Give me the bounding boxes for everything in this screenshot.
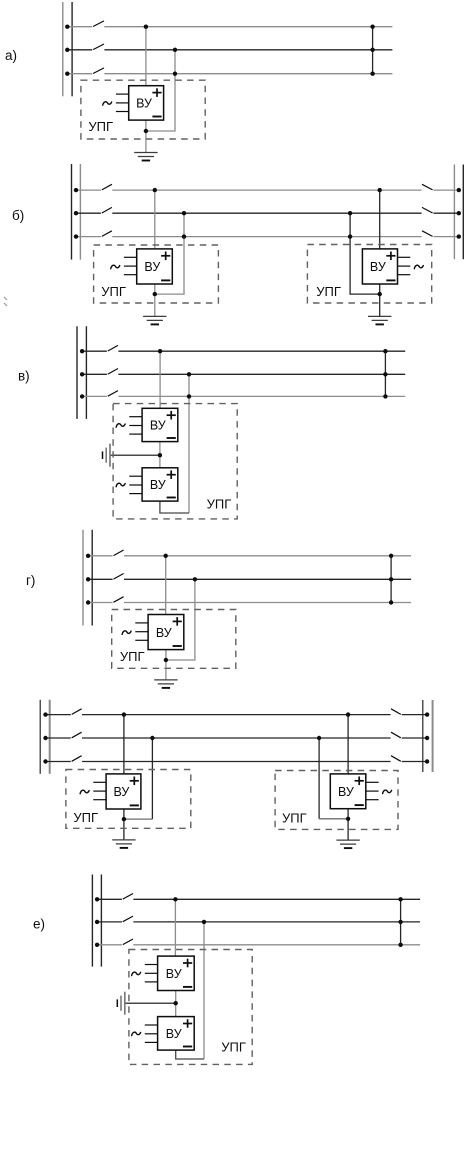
- wire right minus output jog section д: [319, 818, 348, 820]
- left disconnect switch QS1 section д: [72, 709, 82, 715]
- disconnect switch QS3 section в: [108, 391, 118, 397]
- right disconnect switch QS4 section д: [391, 709, 401, 715]
- node right tie phase A section в: [383, 349, 387, 353]
- wire phase A to left ВУ input section б: [154, 190, 156, 249]
- stray page artifact marks: [4, 297, 7, 306]
- node right minus junction section д: [346, 817, 350, 821]
- svg-text:ВУ: ВУ: [150, 478, 166, 492]
- right busbar system section д: [423, 700, 433, 772]
- node right tie phase A section е: [398, 897, 402, 901]
- left disconnect switch QS2 section б: [102, 207, 112, 213]
- svg-text:б): б): [12, 208, 24, 223]
- wire ВУ minus to ground section г: [165, 650, 167, 680]
- left disconnect switch QS2 section д: [72, 732, 82, 738]
- left busbar system section д: [40, 700, 50, 774]
- busbar system section а: [63, 2, 72, 96]
- disconnect switch QS3 section а: [93, 68, 104, 74]
- wire left minus output jog section д: [124, 818, 152, 820]
- wire phase B down-link left section д: [151, 738, 153, 819]
- left disconnect switch QS3 section д: [72, 756, 82, 762]
- rectifier ВУ section г: [122, 615, 184, 650]
- svg-text:ВУ: ВУ: [166, 967, 182, 981]
- node right tie phase B section а: [370, 48, 374, 52]
- wire left ВУ minus to ground section б: [154, 284, 156, 316]
- wire midpoint to ground section е: [125, 1002, 176, 1004]
- right disconnect switch QS5 section б: [422, 207, 433, 213]
- svg-text:г): г): [26, 573, 35, 588]
- node phase A left tap section б: [153, 188, 157, 192]
- left rectifier ВУ section б: [111, 249, 173, 284]
- svg-text:УПГ: УПГ: [73, 810, 98, 825]
- left busbar system section б: [72, 164, 81, 260]
- disconnect switch QS1 section е: [123, 894, 133, 900]
- wire phase A to right ВУ input section б: [379, 190, 381, 249]
- wire phase A to ВУ input section г: [165, 556, 167, 615]
- wire right tie link section е: [400, 899, 402, 945]
- node phase B left tap section б: [182, 211, 186, 215]
- node right tie phase C section г: [389, 600, 393, 604]
- left rectifier ВУ section д: [80, 774, 141, 809]
- busbar system section г: [83, 530, 92, 626]
- wire right tie link section г: [390, 556, 392, 603]
- node right minus junction section б: [378, 292, 382, 296]
- disconnect switch QS2 section в: [108, 369, 118, 375]
- node right tie phase B section е: [398, 920, 402, 924]
- right disconnect switch QS4 section б: [422, 184, 433, 190]
- wire phases B,C down-link section в: [188, 374, 190, 513]
- node right tie phase C section в: [383, 394, 387, 398]
- УПГ enclosure section е: [129, 950, 252, 1065]
- wire right ВУ minus to ground section б: [379, 284, 381, 316]
- rectifier ВУ section а: [103, 86, 164, 120]
- wire phase A to right ВУ input section д: [347, 715, 349, 774]
- wire phase A to ВУ1 input section в: [159, 351, 161, 408]
- node right tie phase A section г: [389, 554, 393, 558]
- ground section г: [154, 680, 177, 688]
- wire phase A to ВУ input section а: [145, 27, 147, 86]
- wire phase A section д: [43, 712, 429, 716]
- wire midpoint to ground section в: [110, 454, 160, 456]
- wire phase B to minus output section г: [166, 579, 195, 660]
- left disconnect switch QS1 section б: [102, 184, 112, 190]
- svg-text:ВУ: ВУ: [113, 785, 129, 799]
- wire phases B,C to right minus output section б: [350, 213, 380, 294]
- right УПГ enclosure section б: [307, 245, 431, 304]
- right УПГ enclosure section д: [275, 771, 398, 830]
- node right tie phase A section а: [370, 25, 374, 29]
- disconnect switch QS1 section г: [114, 550, 124, 556]
- disconnect switch QS1 section а: [93, 21, 104, 27]
- svg-text:УПГ: УПГ: [221, 1040, 246, 1055]
- svg-text:УПГ: УПГ: [316, 284, 341, 299]
- wire phase A to ВУ1 input section е: [174, 899, 176, 956]
- disconnect switch QS3 section г: [114, 597, 124, 603]
- wire phases B,C to minus output section а: [146, 50, 175, 131]
- node right tie phase C section а: [370, 72, 374, 76]
- right ground section б: [368, 316, 391, 324]
- node phase A left tap section д: [122, 712, 126, 716]
- wire ВУ1 minus to ВУ2 plus section в: [159, 442, 161, 468]
- node phase B tap section г: [193, 577, 197, 581]
- node phase B right tap section д: [317, 736, 321, 740]
- node phase A right tap section д: [346, 712, 350, 716]
- right busbar system section б: [454, 165, 463, 260]
- svg-text:е): е): [33, 917, 45, 932]
- wire ВУ2 minus output jog section е: [176, 1050, 204, 1059]
- УПГ enclosure section в: [113, 404, 237, 519]
- node phase A right tap section б: [378, 188, 382, 192]
- node phase A tap section а: [144, 25, 148, 29]
- node midpoint junction section е: [174, 1001, 178, 1005]
- rectifier ВУ1 section в: [116, 408, 178, 441]
- svg-text:ВУ: ВУ: [166, 1027, 182, 1041]
- node phase A tap section г: [164, 554, 168, 558]
- busbar system section е: [92, 875, 101, 967]
- node right tie phase B section г: [389, 577, 393, 581]
- right disconnect switch QS5 section д: [391, 732, 401, 738]
- node phase C right tap section б: [348, 234, 352, 238]
- right rectifier ВУ section д: [330, 774, 391, 809]
- wire phase A section е: [95, 897, 420, 901]
- svg-text:УПГ: УПГ: [282, 811, 307, 826]
- right disconnect switch QS6 section б: [422, 231, 433, 237]
- left УПГ enclosure section д: [66, 770, 191, 829]
- svg-text:в): в): [18, 369, 30, 384]
- wire right tie link section в: [384, 351, 386, 396]
- node phase B tap section а: [173, 48, 177, 52]
- svg-text:ВУ: ВУ: [150, 419, 166, 433]
- disconnect switch QS3 section е: [123, 939, 133, 945]
- wire phase C section е: [95, 943, 420, 947]
- svg-text:ВУ: ВУ: [338, 785, 354, 799]
- node left minus junction section б: [153, 292, 157, 296]
- wire phase C section в: [80, 394, 405, 398]
- svg-text:УПГ: УПГ: [207, 497, 232, 512]
- УПГ enclosure section а: [81, 80, 205, 139]
- wire phase B down-link section е: [203, 922, 205, 1059]
- node phase B right tap section б: [348, 211, 352, 215]
- node phase A tap section в: [158, 349, 162, 353]
- wire phase B section в: [80, 372, 405, 376]
- left ground section д: [112, 840, 135, 848]
- wire phase A section б: [74, 188, 461, 192]
- svg-text:а): а): [5, 48, 17, 63]
- svg-text:УПГ: УПГ: [101, 284, 126, 299]
- wire phase B section е: [95, 920, 420, 924]
- wire right ВУ minus to ground section д: [347, 809, 349, 840]
- wire right tie link section а: [372, 27, 374, 74]
- wire phase C section б: [74, 234, 461, 238]
- node midpoint junction section в: [158, 453, 162, 457]
- wire phase B section г: [86, 577, 411, 581]
- node phase A tap section е: [173, 897, 177, 901]
- node left minus junction section д: [122, 817, 126, 821]
- node phase B left tap section д: [150, 736, 154, 740]
- disconnect switch QS1 section в: [108, 345, 118, 351]
- wire ВУ minus to ground section а: [145, 120, 147, 152]
- wire phase B section д: [43, 736, 429, 740]
- svg-text:ВУ: ВУ: [370, 260, 386, 274]
- node minus junction section а: [144, 129, 148, 133]
- wire phase B section а: [65, 48, 392, 52]
- disconnect switch QS2 section а: [93, 44, 104, 50]
- right rectifier ВУ section б: [362, 249, 423, 284]
- wire phase A section в: [80, 349, 405, 353]
- wire phase A section а: [65, 25, 392, 29]
- right disconnect switch QS6 section д: [391, 756, 401, 762]
- node right tie phase B section в: [383, 372, 387, 376]
- wire ВУ1 minus to ВУ2 plus section е: [175, 991, 177, 1017]
- rectifier ВУ2 section е: [132, 1017, 195, 1051]
- node phase B tap section е: [202, 920, 206, 924]
- svg-text:ВУ: ВУ: [156, 626, 172, 640]
- disconnect switch QS2 section е: [123, 916, 133, 922]
- УПГ enclosure section г: [112, 610, 236, 669]
- wire phase B down-link right section д: [318, 738, 320, 819]
- node phase C left tap section б: [182, 234, 186, 238]
- svg-text:УПГ: УПГ: [120, 649, 145, 664]
- svg-text:ВУ: ВУ: [144, 260, 160, 274]
- wire phase C section а: [65, 72, 392, 76]
- wire phase C section г: [86, 600, 411, 604]
- wire phase B section б: [74, 211, 461, 215]
- wire phase C section д: [43, 759, 429, 763]
- busbar system section в: [77, 326, 86, 419]
- right ground section д: [336, 840, 359, 848]
- node phase B tap section в: [187, 372, 191, 376]
- rectifier ВУ2 section в: [116, 468, 178, 501]
- wire phase A to left ВУ input section д: [123, 715, 125, 774]
- wire phases B,C to left minus output section б: [155, 213, 184, 294]
- node right tie phase C section е: [398, 943, 402, 947]
- disconnect switch QS2 section г: [114, 574, 124, 580]
- ground section а: [134, 153, 157, 161]
- ground section в: [103, 444, 111, 467]
- ground section е: [117, 992, 125, 1015]
- rectifier ВУ1 section е: [132, 956, 195, 990]
- wire left ВУ minus to ground section д: [123, 809, 125, 840]
- left УПГ enclosure section б: [94, 245, 219, 303]
- node phase C tap section в: [187, 394, 191, 398]
- node minus junction section г: [164, 658, 168, 662]
- wire phase A section г: [86, 554, 411, 558]
- svg-text:ВУ: ВУ: [136, 97, 152, 111]
- left ground section б: [143, 316, 166, 324]
- svg-text:УПГ: УПГ: [88, 119, 113, 134]
- node phase C tap section а: [173, 72, 177, 76]
- wire ВУ2 minus output jog section в: [160, 501, 189, 513]
- left disconnect switch QS3 section б: [102, 231, 112, 237]
